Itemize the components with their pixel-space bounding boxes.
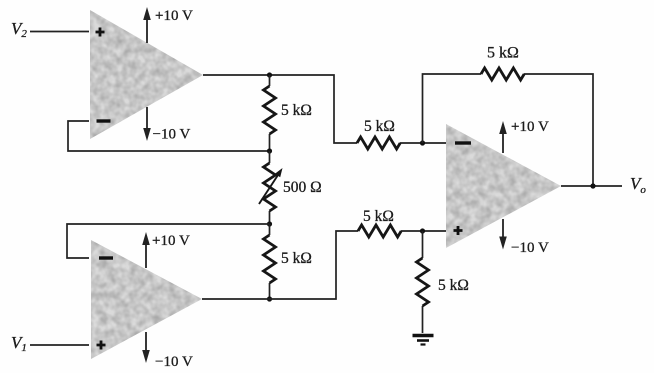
resistor 5k (top-right horizontal, to U3 minus input): [357, 137, 400, 149]
svg-text:5 kΩ: 5 kΩ: [364, 118, 395, 135]
op-amp U1 (top-left) body: [85, 5, 210, 145]
node D junction dot: [267, 296, 272, 301]
U3 plus input symbol: [454, 226, 463, 235]
U3 +10 V supply arrow: [499, 121, 507, 153]
svg-text:5 kΩ: 5 kΩ: [487, 45, 519, 62]
wire U2 output to bottom resistor row: [202, 231, 446, 299]
svg-text:−10 V: −10 V: [155, 354, 193, 370]
U2 -10 V supply arrow: [142, 332, 150, 363]
resistor 5k (top middle vertical): [269, 75, 271, 151]
node B junction dot: [267, 148, 272, 153]
wire U1 output to resistor row: [203, 75, 446, 143]
ground symbol: [413, 336, 434, 345]
resistor 5k (bottom-right horizontal, to U3 plus input): [358, 225, 401, 237]
node C junction dot: [267, 221, 272, 226]
U2 minus input symbol: [99, 256, 113, 259]
U1 plus input symbol: [96, 28, 105, 37]
wire U1 feedback (minus input to node B): [68, 121, 270, 151]
wire V2 to U1 + input: [30, 31, 89, 33]
svg-text:−10 V: −10 V: [511, 240, 549, 256]
U2 plus input symbol: [97, 341, 106, 350]
svg-text:5 kΩ: 5 kΩ: [281, 102, 312, 119]
wire feedback loop riser and top run: [423, 74, 594, 186]
svg-text:−10 V: −10 V: [153, 127, 191, 143]
resistor 5k (to ground): [422, 231, 424, 333]
wire U2 feedback (minus input to node C): [67, 224, 270, 258]
resistor 5k (bottom middle vertical): [269, 224, 271, 299]
resistor 5k (feedback): [481, 68, 524, 80]
U1 +10 V supply arrow: [143, 7, 151, 43]
wire V1 to U2 + input: [30, 344, 89, 346]
op-amp U2 (bottom-left) body: [86, 235, 208, 365]
U3 -10 V supply arrow: [499, 219, 507, 250]
U2 +10 V supply arrow: [142, 232, 150, 268]
U1 minus input symbol: [97, 119, 111, 122]
svg-text:5 kΩ: 5 kΩ: [281, 250, 312, 267]
svg-text:500 Ω: 500 Ω: [283, 179, 322, 196]
wire U3 output to Vo: [561, 185, 622, 187]
svg-text:+10 V: +10 V: [155, 8, 193, 24]
U3 minus input symbol: [455, 141, 471, 144]
svg-text:+10 V: +10 V: [511, 119, 549, 135]
svg-text:5 kΩ: 5 kΩ: [438, 277, 469, 294]
op-amp U3 (right) body: [441, 119, 567, 253]
node A junction dot: [267, 72, 272, 77]
svg-text:5 kΩ: 5 kΩ: [363, 208, 394, 225]
node at U3 plus input: [420, 228, 425, 233]
node at output junction: [590, 183, 595, 188]
svg-text:+10 V: +10 V: [152, 233, 190, 249]
rheostat 500 Ohm (middle vertical, variable): [259, 151, 283, 224]
node at U3 minus input: [420, 140, 425, 145]
U1 -10 V supply arrow: [143, 107, 151, 141]
